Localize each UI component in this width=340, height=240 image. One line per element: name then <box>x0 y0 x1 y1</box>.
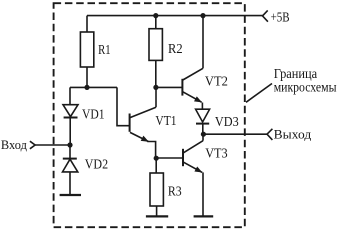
wire node C to R3 <box>155 158 157 173</box>
diode VD2 <box>63 159 78 172</box>
ground VD2 <box>60 194 81 196</box>
node output junction dot <box>201 132 206 137</box>
transistor VT2 <box>182 16 203 110</box>
terminal output chevron <box>267 129 272 140</box>
svg-text:VD3: VD3 <box>215 114 239 129</box>
svg-text:+5В: +5В <box>271 10 290 25</box>
svg-text:R1: R1 <box>98 42 111 57</box>
wire VD2 anode down <box>69 172 71 195</box>
transistor VT1 <box>130 87 156 158</box>
node junction dot VT2 collector <box>200 13 205 18</box>
wire R1 bottom <box>86 67 88 87</box>
wire output <box>203 133 267 135</box>
svg-text:R3: R3 <box>168 183 182 198</box>
svg-text:Вход: Вход <box>1 138 28 152</box>
resistor R1 <box>80 32 93 67</box>
svg-text:VT3: VT3 <box>205 146 228 161</box>
wire VD1 cathode to input node <box>69 118 71 146</box>
node A junction dot (R1 / VD1 / VT1 base) <box>84 85 89 90</box>
wire VD3 cathode to output node <box>202 124 204 135</box>
terminal +5V chevron <box>263 10 268 21</box>
svg-text:VT1: VT1 <box>155 113 176 128</box>
wire VD1 anode column <box>69 87 71 104</box>
node input junction dot <box>67 142 72 147</box>
wire VT1 base feed <box>117 87 129 125</box>
wire node A horizontal <box>70 86 117 88</box>
ground VT3 <box>194 215 214 217</box>
svg-text:R2: R2 <box>168 41 183 56</box>
svg-text:Выход: Выход <box>274 127 312 141</box>
dashed microchip boundary <box>54 3 245 227</box>
wire R1 top riser <box>86 16 88 32</box>
diode VD1 <box>63 105 78 118</box>
ground R3 <box>146 215 168 217</box>
terminal input chevron <box>30 141 35 149</box>
svg-text:микросхемы: микросхемы <box>274 80 337 95</box>
svg-text:VD1: VD1 <box>82 106 105 121</box>
resistor R2 <box>149 29 162 61</box>
resistor R3 <box>150 173 163 206</box>
wire R2 bottom <box>155 60 157 87</box>
diode VD3 <box>196 109 210 123</box>
wire node C to VT3 base <box>156 157 183 159</box>
node junction dot R2 top <box>153 13 158 18</box>
wire +5V rail <box>87 15 263 17</box>
wire node B to VT2 base <box>156 86 183 88</box>
wire R3 bottom <box>156 206 158 216</box>
wire R2 top <box>155 16 157 29</box>
transistor VT3 <box>183 134 203 216</box>
wire input <box>35 144 70 146</box>
node C junction dot (VT1 emitter / R3 / VT3 base) <box>154 156 159 161</box>
leader line to boundary label <box>246 84 272 103</box>
svg-text:VD2: VD2 <box>85 157 108 172</box>
node B junction dot (R2 / VT1 collector / VT2 base) <box>153 85 158 90</box>
wire input node to VD2 <box>69 145 71 159</box>
svg-text:VT2: VT2 <box>205 74 228 89</box>
